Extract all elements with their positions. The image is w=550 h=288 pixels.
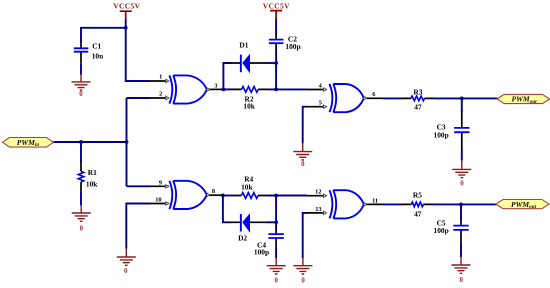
junction R4/pin12 tee — [274, 194, 278, 198]
svg-text:12: 12 — [315, 189, 321, 196]
svg-text:D2: D2 — [238, 234, 247, 243]
ground (C3) with 0 label — [452, 160, 471, 187]
capacitor C3 — [434, 111, 470, 150]
ground (pin13) with 0 label — [293, 258, 312, 285]
wire D2 to C4 column — [266, 221, 276, 223]
svg-text:47: 47 — [414, 209, 422, 218]
junction bus tee — [125, 140, 129, 144]
capacitor C1 — [74, 41, 103, 64]
svg-text:47: 47 — [414, 102, 422, 111]
wire R4 to gate4 pin12 — [267, 195, 307, 197]
xor gate U1A pins 1,2,3 — [149, 74, 224, 104]
svg-text:10n: 10n — [92, 52, 104, 61]
svg-text:D1: D1 — [239, 40, 248, 49]
power VCC5V symbol #2 — [263, 2, 290, 20]
xor gate U1C pins 9,10,8 — [149, 179, 223, 209]
svg-text:10k: 10k — [86, 179, 98, 188]
wire gate4 pin13 to ground — [303, 213, 307, 258]
svg-text:13: 13 — [315, 206, 321, 213]
port flag PWM_out (bottom) — [496, 200, 549, 211]
junction node B (pin8) — [221, 194, 225, 198]
wire PWM_in rail — [54, 141, 127, 143]
wire R1 to ground — [80, 192, 82, 205]
svg-text:R1: R1 — [88, 168, 97, 177]
wire pin10 to ground — [126, 204, 149, 249]
svg-text:0: 0 — [460, 180, 464, 187]
wire C3 to ground — [461, 149, 463, 161]
port flag PWM_in — [3, 138, 54, 149]
resistor R4 — [223, 174, 268, 198]
svg-text:0: 0 — [301, 278, 305, 285]
wire R2 to gate2 pin4 — [267, 88, 307, 90]
power VCC5V symbol #1 — [113, 2, 140, 21]
wire pin11 to R5 — [383, 203, 402, 205]
junction R2/pin4 tee — [274, 88, 278, 92]
xor gate U1B pins 4,5,6 — [307, 82, 384, 112]
svg-text:10: 10 — [155, 196, 161, 203]
svg-text:0: 0 — [79, 91, 83, 98]
junction R1 tee — [79, 140, 83, 144]
svg-text:11: 11 — [372, 197, 378, 204]
resistor R3 — [402, 88, 435, 112]
wire R1 branch — [80, 142, 82, 162]
resistor R1 — [78, 161, 98, 194]
svg-text:10k: 10k — [241, 182, 253, 191]
junction R3/C3 tee — [460, 97, 464, 101]
wire vertical bus pin2 to pin9 — [127, 98, 150, 186]
svg-text:VCC5V: VCC5V — [113, 2, 140, 11]
wire gate2 pin5 to ground — [303, 107, 307, 144]
svg-text:C1: C1 — [92, 42, 101, 51]
svg-text:0: 0 — [124, 268, 128, 275]
wire VCC rail down to gate1 pin1 — [126, 20, 149, 82]
svg-text:100p: 100p — [285, 42, 300, 51]
capacitor C2 — [269, 33, 301, 53]
svg-text:VCC5V: VCC5V — [263, 2, 290, 11]
svg-text:2: 2 — [159, 91, 162, 98]
svg-text:8: 8 — [212, 188, 215, 195]
wire tee to C1 — [81, 28, 126, 42]
wire node B down to D2 branch — [223, 195, 231, 222]
junction D1/C2 tee — [274, 61, 278, 65]
wire tee down to C5 — [460, 204, 462, 219]
capacitor C4 — [254, 228, 284, 257]
ground (C1) with 0 label — [72, 74, 91, 98]
junction D2/C4 tee — [274, 220, 278, 224]
svg-text:R5: R5 — [413, 190, 422, 199]
ground (pin5) with 0 label — [293, 143, 312, 168]
svg-text:9: 9 — [159, 179, 162, 186]
port flag PWM_out (top) — [497, 94, 550, 104]
wire pin12 tee down to D2 tee and C4 — [275, 196, 277, 230]
capacitor C5 — [434, 218, 469, 245]
ground (C5) with 0 label — [452, 257, 471, 284]
junction VCC/C1 tee — [124, 26, 128, 30]
ground (pin10) with 0 label — [117, 248, 136, 274]
wire node A up to D1 branch — [223, 63, 230, 89]
wire C2 down through D1 tee to R2 rail — [275, 51, 277, 89]
junction node A (pin3) — [222, 88, 226, 92]
diode D1 — [230, 40, 267, 73]
wire tee down to C3 — [461, 98, 463, 112]
svg-text:3: 3 — [214, 82, 217, 89]
wire pin6 to R3 — [383, 97, 402, 99]
resistor R2 — [223, 87, 267, 111]
svg-text:5: 5 — [319, 100, 322, 107]
svg-text:0: 0 — [80, 226, 84, 233]
ground (R1) with 0 label — [72, 205, 91, 233]
svg-text:0: 0 — [274, 278, 278, 285]
wire C5 to ground — [460, 245, 462, 258]
wire R5 to output flag 2 — [433, 203, 497, 205]
svg-text:0: 0 — [459, 277, 463, 284]
svg-text:100p: 100p — [254, 248, 269, 257]
resistor R5 — [402, 190, 434, 218]
svg-text:0: 0 — [301, 161, 305, 168]
svg-text:100p: 100p — [434, 226, 449, 235]
wire R3 to output flag — [434, 97, 498, 99]
wire VCC2 down to C2 — [275, 19, 277, 34]
junction R5/C5 tee — [459, 203, 463, 207]
diode D2 — [230, 213, 267, 242]
svg-text:100p: 100p — [434, 130, 449, 139]
xor gate U1D pins 12,13,11 — [307, 189, 384, 219]
svg-text:10k: 10k — [243, 102, 255, 111]
wire D1 to C2 column — [266, 62, 276, 64]
svg-text:R3: R3 — [413, 88, 422, 97]
wire C4 to ground — [275, 250, 277, 259]
ground (C4) with 0 label — [267, 258, 286, 285]
svg-text:1: 1 — [159, 74, 162, 81]
wire C1 to ground — [80, 64, 82, 75]
